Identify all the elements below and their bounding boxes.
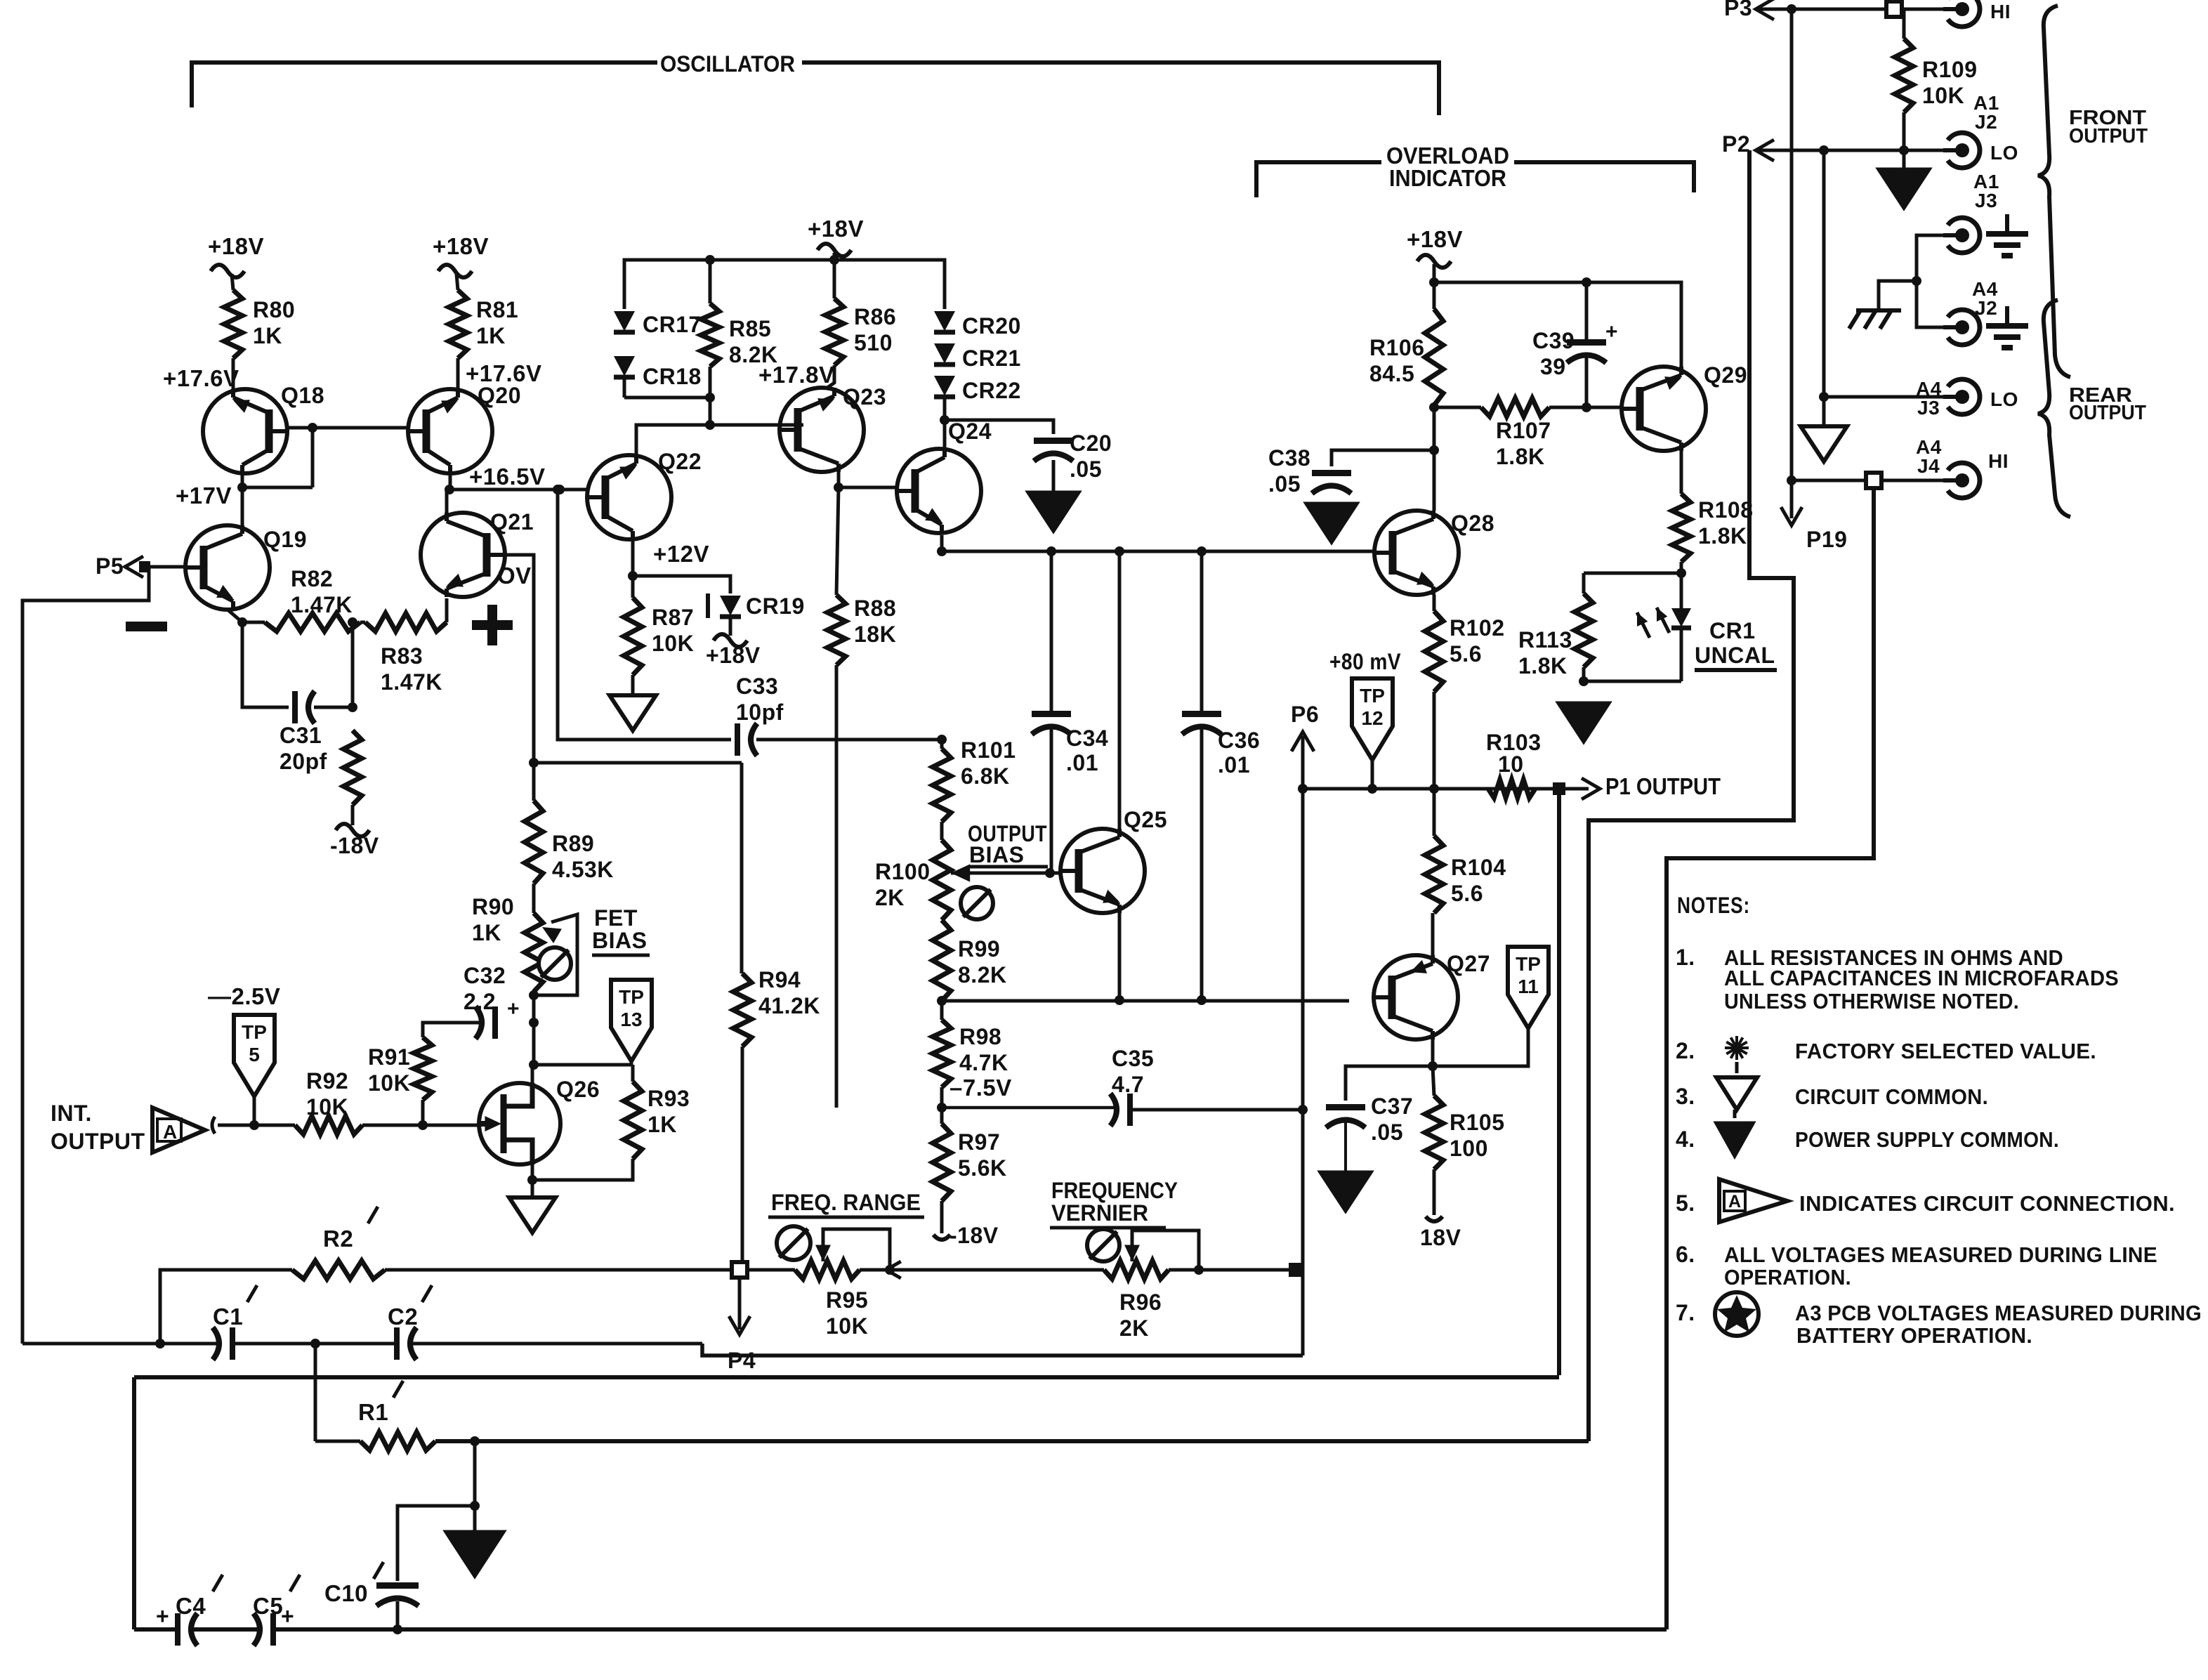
svg-text:10K: 10K <box>1922 83 1964 108</box>
svg-text:R106: R106 <box>1369 335 1425 360</box>
fet Q26 <box>479 1083 560 1164</box>
resistor R89 <box>525 763 543 884</box>
capacitor C33 <box>737 723 757 756</box>
svg-text:4.7: 4.7 <box>1112 1072 1144 1097</box>
FRONT OUTPUT label <box>2069 107 2148 147</box>
resistor R87 <box>624 576 642 675</box>
svg-text:R81: R81 <box>476 297 518 322</box>
resistor R105 <box>1425 1066 1443 1169</box>
svg-text:C20: C20 <box>1070 431 1112 456</box>
capacitor C32 <box>475 997 520 1039</box>
resistor R83 <box>365 613 447 631</box>
svg-text:CR22: CR22 <box>962 378 1021 403</box>
node R95 right <box>860 1265 895 1275</box>
wire P5 down left <box>22 567 149 1344</box>
transistor Q22 <box>587 455 671 539</box>
wire R109 bottom <box>1903 112 1906 150</box>
svg-text:POWER SUPPLY COMMON.: POWER SUPPLY COMMON. <box>1795 1127 2059 1152</box>
emitter rail y785 <box>937 535 1332 556</box>
svg-text:P4: P4 <box>728 1348 756 1373</box>
power supply common below C37 <box>1319 1172 1372 1212</box>
P3 arrow <box>1756 0 1774 20</box>
gate wire right <box>362 1124 479 1127</box>
P2 arrow <box>1756 140 1774 161</box>
+18V supply overload <box>1407 226 1463 287</box>
svg-text:2.2: 2.2 <box>464 989 496 1014</box>
capacitor C31 <box>295 691 315 723</box>
wire +17V horizontal <box>237 483 313 492</box>
svg-text:5: 5 <box>249 1044 260 1065</box>
svg-text:Q27: Q27 <box>1447 951 1490 976</box>
wire source to common <box>531 1180 534 1197</box>
svg-text:R85: R85 <box>729 316 771 341</box>
svg-text:FREQUENCY: FREQUENCY <box>1051 1178 1178 1203</box>
svg-text:+17.8V: +17.8V <box>758 362 835 388</box>
resistor R90 rheostat <box>525 884 543 992</box>
CR17 label <box>643 312 702 337</box>
svg-text:.01: .01 <box>1066 750 1098 775</box>
wire R80-Q18 <box>232 358 235 389</box>
svg-text:FACTORY SELECTED VALUE.: FACTORY SELECTED VALUE. <box>1795 1039 2096 1063</box>
+18V supply R81 <box>433 233 489 290</box>
svg-text:4.: 4. <box>1676 1127 1695 1152</box>
diode CR20 <box>934 311 955 332</box>
+17V label <box>176 483 232 508</box>
resistor R103 <box>1434 780 1557 798</box>
wire R94 down to P4 node <box>741 1046 744 1262</box>
A4 J2 label <box>1972 278 1998 319</box>
wire Q29 emitter <box>1680 451 1683 494</box>
svg-text:C2: C2 <box>388 1304 418 1330</box>
wire emitter to C37 <box>1346 1066 1433 1101</box>
jack A4 J3 LO <box>1943 379 1980 414</box>
R1' label <box>358 1381 403 1425</box>
+18V label CR19 <box>706 643 761 668</box>
svg-text:P2: P2 <box>1722 131 1750 157</box>
transistor Q25 <box>1060 829 1145 913</box>
svg-text:+16.5V: +16.5V <box>469 464 546 490</box>
R83 label <box>381 643 442 695</box>
capacitor C38 <box>1312 473 1351 494</box>
svg-text:TP: TP <box>242 1021 267 1043</box>
plus symbol <box>472 605 513 645</box>
P4 square <box>732 1262 747 1278</box>
A4 J3 label <box>1916 378 1942 419</box>
svg-text:5.6K: 5.6K <box>958 1155 1007 1181</box>
svg-text:R80: R80 <box>253 297 295 322</box>
-18V label R84 <box>330 833 379 858</box>
Q22 label <box>658 449 702 474</box>
square J4 <box>1866 473 1881 488</box>
wire CR18 to R85 <box>624 396 710 400</box>
transistor Q18 <box>203 389 287 473</box>
svg-text:4.7K: 4.7K <box>959 1050 1008 1075</box>
-18V label R97 <box>949 1223 999 1248</box>
svg-text:R91: R91 <box>368 1044 410 1070</box>
svg-text:BIAS: BIAS <box>592 928 647 953</box>
capacitor C2' <box>397 1327 416 1360</box>
svg-text:C4: C4 <box>176 1593 206 1619</box>
R91 label <box>368 1044 410 1096</box>
svg-text:BATTERY OPERATION.: BATTERY OPERATION. <box>1796 1323 2032 1348</box>
svg-text:Q18: Q18 <box>281 383 324 408</box>
svg-text:1K: 1K <box>476 323 506 348</box>
wire R1 junction down <box>470 1441 480 1511</box>
A1 J2 label <box>1973 92 1999 133</box>
lamp CR1 <box>1671 573 1691 681</box>
svg-text:HI: HI <box>1988 450 2009 472</box>
resistor R94 <box>733 973 751 1046</box>
wire tick <box>212 1117 215 1134</box>
R107 label <box>1496 418 1551 469</box>
wire R89-R94 header <box>529 758 742 973</box>
wire Q18-Q20 base link <box>287 423 408 433</box>
svg-text:10K: 10K <box>826 1313 868 1339</box>
svg-text:2K: 2K <box>875 885 905 910</box>
+18V rail overload <box>1434 277 1681 367</box>
R2' label <box>323 1207 378 1252</box>
svg-text:P5: P5 <box>96 553 124 579</box>
svg-text:R109: R109 <box>1922 57 1978 82</box>
P4 label <box>728 1348 756 1373</box>
P3 wire <box>1756 4 1944 14</box>
C33 label <box>736 674 784 725</box>
svg-text:R90: R90 <box>472 894 514 919</box>
R85 label <box>729 316 778 367</box>
svg-text:5.: 5. <box>1676 1190 1695 1216</box>
svg-text:R104: R104 <box>1451 855 1506 880</box>
HI label rear <box>1988 450 2009 472</box>
C4' label <box>176 1575 223 1619</box>
R90 adjust <box>539 947 571 980</box>
svg-text:R92: R92 <box>306 1068 348 1094</box>
svg-text:C32: C32 <box>464 963 506 988</box>
wire to C10 <box>397 1506 475 1581</box>
wire CR22 to Q24 node <box>940 397 949 449</box>
rail to square <box>1199 1268 1289 1272</box>
wire R91 to gate line <box>418 1100 428 1130</box>
box left edge <box>132 1377 136 1629</box>
FREQ RANGE label <box>768 1190 924 1217</box>
R81 label <box>476 297 518 348</box>
P6 label <box>1291 702 1319 727</box>
svg-text:CR21: CR21 <box>962 346 1021 371</box>
resistor R93 <box>624 1065 642 1159</box>
svg-text:C33: C33 <box>736 674 778 699</box>
node R98 bottom <box>937 1087 947 1113</box>
oscillator section bracket <box>192 63 1439 115</box>
svg-text:OUTPUT: OUTPUT <box>2069 402 2146 424</box>
R96 label <box>1119 1289 1162 1341</box>
wire C2 right stepped <box>409 1342 702 1346</box>
transistor Q24 <box>897 449 981 533</box>
svg-text:1.47K: 1.47K <box>381 669 442 695</box>
diode CR19 <box>708 593 741 618</box>
wire J3 to A4J2 <box>1912 235 1944 327</box>
R80 label <box>253 297 295 348</box>
+18V supply center <box>808 216 864 277</box>
svg-text:39: 39 <box>1540 354 1566 379</box>
FREQUENCY VERNIER label <box>1050 1178 1178 1228</box>
wire Q22 collector up <box>636 420 796 455</box>
C36 label <box>1218 728 1260 777</box>
diode CR22 <box>934 376 955 397</box>
svg-text:R96: R96 <box>1119 1289 1162 1315</box>
chassis ground <box>1849 281 1917 329</box>
svg-text:10pf: 10pf <box>736 700 784 725</box>
svg-text:-18V: -18V <box>949 1223 999 1248</box>
resistor R113 <box>1575 573 1593 681</box>
wire R1' right <box>435 1436 1589 1446</box>
earth ground J3 <box>1986 214 2028 256</box>
CR19 label <box>746 593 805 619</box>
wire R101-R100 <box>940 822 944 840</box>
diode CR21 <box>934 343 955 365</box>
svg-text:J3: J3 <box>1975 190 1997 211</box>
svg-text:+: + <box>156 1603 169 1629</box>
wire C20 to ground <box>1052 460 1056 492</box>
Q20 label <box>478 383 521 408</box>
svg-text:OSCILLATOR: OSCILLATOR <box>660 51 795 77</box>
resistor R104 <box>1425 789 1443 913</box>
power supply common symbol note <box>1715 1110 1754 1157</box>
svg-text:P3: P3 <box>1724 0 1752 20</box>
svg-text:R113: R113 <box>1518 627 1572 652</box>
R88 label <box>854 596 896 647</box>
svg-text:CR20: CR20 <box>962 313 1021 339</box>
svg-text:OUTPUT: OUTPUT <box>2069 125 2148 147</box>
svg-text:1.8K: 1.8K <box>1518 653 1568 678</box>
svg-text:12: 12 <box>1361 707 1383 729</box>
jack A4 J4 HI <box>1943 463 1980 498</box>
svg-text:A: A <box>1728 1192 1742 1212</box>
wire LO rear <box>1819 392 1944 402</box>
capacitor C34 <box>1032 551 1071 871</box>
+80 mV label <box>1329 649 1401 674</box>
svg-text:C39: C39 <box>1532 328 1575 353</box>
node R96 right <box>1169 1265 1204 1275</box>
svg-text:3.: 3. <box>1676 1084 1695 1109</box>
svg-text:6.: 6. <box>1676 1242 1695 1267</box>
notes text <box>1676 893 2202 1348</box>
P1 OUTPUT label <box>1605 773 1721 799</box>
svg-text:A3 PCB VOLTAGES MEASURED DURIN: A3 PCB VOLTAGES MEASURED DURING <box>1795 1301 2202 1325</box>
svg-text:+18V: +18V <box>706 643 761 668</box>
wire +16.5V rail <box>450 485 587 494</box>
R96 adjust <box>1087 1229 1119 1261</box>
R2' left bend <box>160 1270 292 1344</box>
wire base rail to Q28 <box>1332 550 1374 553</box>
svg-text:10K: 10K <box>652 631 694 656</box>
svg-text:CR17: CR17 <box>643 312 702 337</box>
+17.8V label <box>758 362 835 388</box>
svg-text:INT.: INT. <box>51 1101 92 1126</box>
transistor Q28 <box>1374 511 1459 595</box>
C35 label <box>1112 1046 1154 1097</box>
capacitor C35 <box>1110 1094 1130 1126</box>
svg-text:+17.6V: +17.6V <box>163 365 239 391</box>
node R106 bottom <box>1429 402 1439 455</box>
OV label <box>497 563 532 589</box>
svg-text:R98: R98 <box>959 1024 1001 1049</box>
wire Q27 emitter <box>1428 1039 1438 1071</box>
wire R86 to Q23 <box>827 365 834 388</box>
R113 label <box>1518 627 1572 678</box>
R95 wiper <box>815 1229 890 1270</box>
svg-text:1K: 1K <box>253 323 282 348</box>
wire Q25 emitter down <box>1115 913 1124 1005</box>
wire +16.5V node down <box>553 485 731 740</box>
wire Q20 emitter to rail <box>445 473 454 494</box>
R104 label <box>1451 855 1506 906</box>
resistor R81 <box>449 290 467 358</box>
svg-text:2.: 2. <box>1676 1038 1695 1063</box>
svg-text:INDICATOR: INDICATOR <box>1389 165 1506 191</box>
P3 square <box>1886 1 1902 17</box>
C31 label <box>280 723 327 774</box>
resistor R1' <box>315 1432 435 1450</box>
-2.5V label <box>208 983 280 1009</box>
R100 label <box>875 859 931 910</box>
P19 label <box>1806 527 1847 552</box>
+18V supply R80 <box>208 233 264 290</box>
Q28 label <box>1451 511 1494 536</box>
svg-text:HI: HI <box>1990 1 2011 22</box>
P2 label <box>1722 131 1750 157</box>
svg-text:FREQ. RANGE: FREQ. RANGE <box>771 1190 921 1215</box>
svg-text:R1: R1 <box>358 1399 388 1425</box>
LO label <box>1990 142 2018 164</box>
node R82-R83 <box>348 617 365 627</box>
svg-text:UNLESS OTHERWISE NOTED.: UNLESS OTHERWISE NOTED. <box>1724 989 2019 1013</box>
wire R84 to -18V <box>336 805 369 836</box>
resistor R91 <box>414 1037 432 1100</box>
wire P4-R95 <box>747 1268 795 1272</box>
svg-text:C31: C31 <box>280 723 322 748</box>
svg-text:10: 10 <box>1498 752 1524 777</box>
power supply common below C20 <box>1027 492 1080 532</box>
wire Q28 collector <box>1433 450 1436 511</box>
wire outline bottom <box>134 1627 1667 1632</box>
resistor R107 <box>1434 398 1622 416</box>
svg-text:10K: 10K <box>306 1094 348 1120</box>
Q21 label <box>490 509 534 534</box>
svg-text:Q29: Q29 <box>1704 362 1747 388</box>
jack A4 J2 <box>1943 310 1980 345</box>
svg-text:NOTES:: NOTES: <box>1677 893 1750 918</box>
svg-text:20pf: 20pf <box>280 749 327 774</box>
wire Q23e to Q24 base <box>839 486 897 490</box>
wire C10 down <box>393 1601 402 1634</box>
wire CR18 down <box>623 377 626 398</box>
wiper wire to Q25 base <box>951 868 1062 878</box>
circuit common below R87 <box>610 695 656 730</box>
svg-text:C36: C36 <box>1218 728 1260 753</box>
Q25 label <box>1124 807 1167 832</box>
Q27 base rail <box>942 999 1349 1003</box>
vertical P3 branch <box>1790 9 1794 480</box>
svg-text:R105: R105 <box>1450 1110 1505 1135</box>
svg-text:1.8K: 1.8K <box>1496 444 1545 469</box>
R86 label <box>854 304 896 355</box>
power supply common R109 <box>1877 150 1931 209</box>
R103 label <box>1486 730 1542 777</box>
transistor Q21 <box>421 513 505 597</box>
svg-text:Q26: Q26 <box>556 1077 600 1102</box>
svg-text:INDICATES CIRCUIT CONNECTION.: INDICATES CIRCUIT CONNECTION. <box>1799 1191 2175 1216</box>
C38 label <box>1268 445 1310 497</box>
P5 arrow <box>125 556 150 577</box>
wire R83 to Q21 emitter <box>445 598 449 622</box>
C1' label <box>213 1285 257 1330</box>
Q29 label <box>1704 362 1747 388</box>
capacitor C1' <box>160 1327 232 1360</box>
svg-text:VERNIER: VERNIER <box>1051 1200 1148 1226</box>
svg-text:P19: P19 <box>1806 527 1847 552</box>
power supply common below C38 <box>1305 503 1358 544</box>
R94 label <box>758 967 820 1018</box>
svg-text:C5: C5 <box>253 1593 283 1619</box>
svg-text:TP: TP <box>1516 953 1541 975</box>
testpoint TP11 <box>1508 947 1549 1028</box>
svg-text:ALL VOLTAGES MEASURED DURING L: ALL VOLTAGES MEASURED DURING LINE <box>1724 1242 2157 1267</box>
circuit common P2 branch <box>1801 426 1847 461</box>
svg-text:C1: C1 <box>213 1304 243 1330</box>
R108 label <box>1698 497 1754 549</box>
svg-text:BIAS: BIAS <box>969 842 1024 867</box>
svg-text:R95: R95 <box>826 1287 868 1313</box>
wire R90 to C32 node <box>529 992 539 1028</box>
svg-text:8.2K: 8.2K <box>958 962 1007 987</box>
front output brace <box>2038 6 2070 377</box>
wire Q18 collector <box>241 473 244 487</box>
capacitor C5' <box>254 1603 294 1646</box>
svg-text:TP: TP <box>1360 685 1385 707</box>
capacitor C10' <box>376 1586 419 1606</box>
wire drain into fet <box>531 1065 534 1084</box>
svg-text:+18V: +18V <box>433 233 489 259</box>
R87 label <box>652 605 694 656</box>
svg-text:R94: R94 <box>758 967 801 992</box>
svg-text:C10: C10 <box>324 1580 368 1606</box>
svg-text:CR1: CR1 <box>1709 618 1756 643</box>
CR20 label <box>962 313 1021 339</box>
svg-text:R99: R99 <box>958 936 1000 962</box>
transistor Q23 <box>780 388 864 472</box>
jack A1 J2 LO <box>1943 133 1980 168</box>
Q27 label <box>1447 951 1490 976</box>
svg-text:LO: LO <box>1990 388 2018 410</box>
svg-text:.05: .05 <box>1070 457 1102 482</box>
svg-text:+12V: +12V <box>653 541 709 567</box>
wire P6 outline <box>702 1344 1303 1356</box>
svg-text:–7.5V: –7.5V <box>949 1075 1012 1101</box>
svg-text:FET: FET <box>594 905 638 931</box>
wire C1 line <box>22 1339 165 1348</box>
resistor R80 <box>224 290 242 358</box>
OUTPUT BIAS label <box>968 821 1048 867</box>
lamp arrows <box>1637 608 1669 638</box>
svg-text:R87: R87 <box>652 605 694 630</box>
svg-text:+17V: +17V <box>176 483 232 508</box>
svg-text:1.: 1. <box>1676 945 1695 970</box>
R93 label <box>648 1086 690 1137</box>
resistor R99 <box>933 920 951 1001</box>
resistor R86 <box>825 253 843 365</box>
wire C35 right <box>1130 1105 1308 1115</box>
transistor Q29 <box>1622 367 1706 451</box>
overload indicator bracket <box>1256 162 1694 197</box>
